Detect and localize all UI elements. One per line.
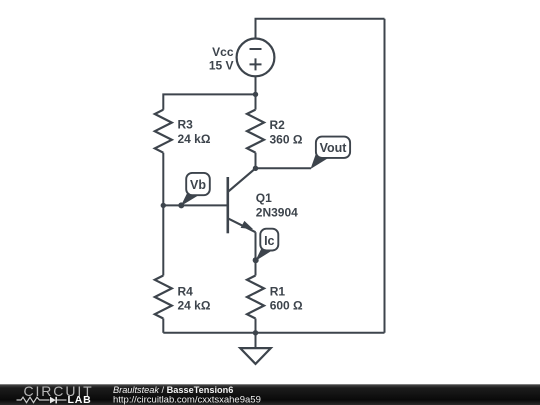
ground: [240, 348, 271, 364]
wire collector node to Vout flag: [256, 167, 312, 169]
wire node A down to R2: [255, 94, 257, 109]
svg-text:Vcc: Vcc: [212, 45, 234, 59]
wire R2 bottom to collector node: [255, 153, 257, 169]
footer bar: [0, 384, 540, 405]
svg-text:LAB: LAB: [68, 394, 92, 405]
svg-text:2N3904: 2N3904: [256, 206, 298, 220]
resistor R1: [247, 276, 264, 319]
wire R3 bottom to node B: [162, 153, 164, 206]
svg-text:R2: R2: [270, 118, 286, 132]
voltage source V1 Vcc 15V: [237, 39, 275, 77]
svg-text:360 Ω: 360 Ω: [270, 132, 303, 146]
footer credit text: [113, 385, 261, 405]
svg-text:R4: R4: [178, 285, 194, 299]
resistor R3: [155, 110, 172, 153]
net flag Vout: [311, 137, 351, 169]
svg-text:15 V: 15 V: [209, 59, 234, 73]
node C collector junction dot: [253, 166, 258, 171]
resistor R4: [155, 276, 172, 319]
svg-text:Q1: Q1: [256, 191, 272, 205]
net flag Ic: [253, 229, 279, 264]
node A junction dot: [253, 92, 258, 97]
svg-text:Vb: Vb: [190, 178, 206, 192]
svg-text:R3: R3: [178, 118, 194, 132]
svg-text:Vout: Vout: [320, 141, 348, 155]
svg-text:24 kΩ: 24 kΩ: [178, 298, 211, 312]
wire right side vertical: [384, 19, 386, 333]
svg-text:Braultsteak / BasseTension6: Braultsteak / BasseTension6: [113, 385, 233, 395]
wire bottom horizontal: [163, 332, 384, 334]
resistor R2: [247, 110, 264, 153]
svg-text:24 kΩ: 24 kΩ: [178, 132, 211, 146]
svg-text:http://circuitlab.com/cxxtsxah: http://circuitlab.com/cxxtsxahe9a59: [113, 395, 261, 405]
wire R1 bottom to bottom rail: [255, 319, 257, 333]
node B junction dot: [161, 203, 166, 208]
wire emitter down to R1: [255, 232, 257, 275]
wire node B down to R4: [162, 205, 164, 275]
wire node A to left column: [163, 94, 255, 109]
svg-text:Ic: Ic: [264, 234, 274, 248]
wire from Vcc bottom to node A: [255, 75, 257, 94]
CircuitLab logo: [17, 383, 94, 405]
wire R4 bottom to bottom rail: [162, 319, 164, 333]
svg-text:R1: R1: [270, 285, 286, 299]
wire top from Vcc to top-right corner: [256, 19, 385, 40]
net flag Vb: [178, 173, 210, 209]
node D emitter tap junction dot: [253, 257, 258, 262]
svg-text:600 Ω: 600 Ω: [270, 298, 303, 312]
transistor Q1 2N3904: [228, 168, 256, 233]
wire ground stub: [255, 333, 257, 348]
wire base from node B to Q1: [163, 204, 228, 206]
node E ground junction dot: [253, 330, 258, 335]
